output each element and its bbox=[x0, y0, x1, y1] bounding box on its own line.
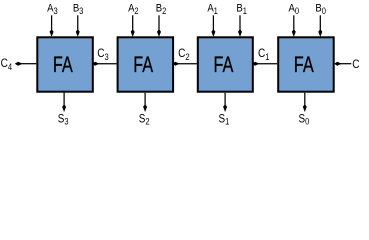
full adder FA0 (bit 0) block bbox=[278, 37, 334, 91]
carry-out C4 wire bbox=[21, 63, 37, 65]
svg-text:FA: FA bbox=[53, 52, 73, 77]
svg-text:C: C bbox=[352, 58, 359, 71]
carry C1 wire bbox=[257, 63, 277, 65]
sum S1 wire bbox=[224, 93, 226, 106]
sum S2 wire bbox=[144, 93, 146, 106]
wire B3 input bbox=[77, 15, 79, 31]
carry-in C wire bbox=[340, 63, 352, 65]
wire A2 input bbox=[132, 15, 134, 31]
wire B2 input bbox=[158, 15, 160, 31]
wire B0 input bbox=[319, 15, 321, 31]
svg-text:FA: FA bbox=[214, 52, 234, 77]
sum S0 wire bbox=[304, 93, 306, 106]
svg-text:FA: FA bbox=[133, 52, 153, 77]
wire A1 input bbox=[212, 15, 214, 31]
svg-text:FA: FA bbox=[294, 52, 314, 77]
wire A3 input bbox=[51, 15, 53, 31]
wire B1 input bbox=[239, 15, 241, 31]
sum S3 wire bbox=[63, 93, 65, 106]
carry C3 wire bbox=[97, 63, 116, 65]
full adder FA2 (bit 2) block bbox=[118, 37, 174, 91]
full adder FA1 (bit 1) block bbox=[198, 37, 253, 91]
full adder FA3 (bit 3) block bbox=[37, 37, 93, 91]
wire A0 input bbox=[293, 15, 295, 31]
carry C2 wire bbox=[178, 63, 197, 65]
